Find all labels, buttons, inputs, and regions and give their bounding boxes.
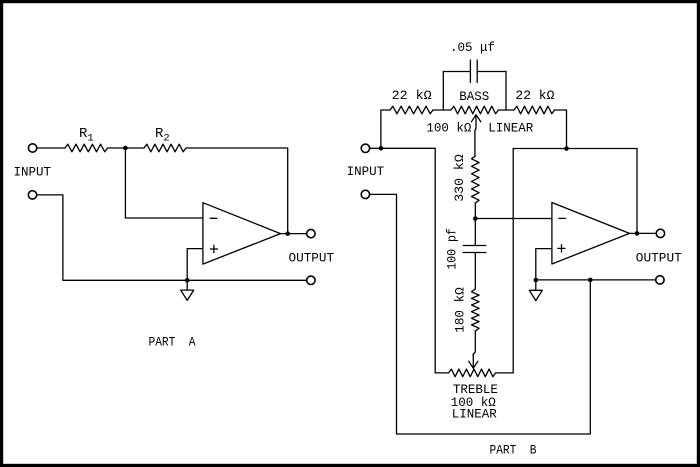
wire bass wiper to 330k — [475, 128, 476, 156]
svg-text:22 kΩ: 22 kΩ — [515, 89, 555, 103]
capacitor C1 .05uf plate right — [476, 60, 478, 83]
svg-text:.05 μf: .05 μf — [450, 41, 495, 55]
wire feedback line (Part B) — [513, 148, 637, 150]
wire feedback top (Part A) — [186, 148, 288, 234]
svg-text:PART B: PART B — [490, 443, 537, 457]
wire 22k right from bass pot — [506, 109, 514, 111]
node: ground junction (Part A) — [185, 278, 190, 283]
wire U2 output — [630, 232, 657, 234]
wire 22k left to bass pot — [433, 109, 443, 111]
svg-text:330 kΩ: 330 kΩ — [453, 154, 467, 202]
svg-text:LINEAR: LINEAR — [488, 121, 534, 135]
wire 22k right down to feedback line — [555, 110, 567, 149]
wire U1 noninverting input to ground bus — [187, 249, 203, 281]
op-amp U1 (Part A) — [203, 203, 281, 264]
output terminal J3 (Part A) — [307, 229, 315, 237]
capacitor C2 100pf plate top — [463, 245, 486, 247]
treble wiper arrow — [469, 354, 478, 368]
node: summing junction — [473, 216, 478, 221]
svg-text:22 kΩ: 22 kΩ — [392, 89, 433, 103]
svg-text:PART A: PART A — [149, 336, 196, 350]
input terminal J2 (Part A) — [28, 191, 36, 199]
wire bass pot left leg up to cap — [442, 72, 444, 111]
wire J5 to network — [370, 147, 381, 149]
node: input junction (Part B) — [379, 146, 384, 151]
resistor 22k right — [514, 106, 555, 114]
output terminal J4 (Part A) — [307, 276, 315, 284]
op-amp U2 (Part B) — [552, 203, 630, 265]
wire J1 to R1 — [37, 147, 65, 149]
svg-text:OUTPUT: OUTPUT — [636, 252, 683, 266]
wire U1 output — [281, 233, 307, 235]
wire cap right — [477, 71, 506, 73]
wire 180k to treble wiper — [473, 331, 475, 356]
node: feedback junction — [564, 146, 569, 151]
svg-text:100 kΩ: 100 kΩ — [426, 121, 472, 135]
U2 plus sign — [558, 247, 565, 249]
ground symbol (Part B) — [529, 280, 542, 301]
wire bass pot right leg up to cap — [505, 72, 507, 111]
U2 minus sign — [559, 217, 566, 219]
wire 330k to node — [474, 203, 476, 219]
ground symbol (Part A) — [181, 280, 194, 300]
svg-text:TREBLE: TREBLE — [453, 383, 498, 397]
wire J2 to ground bus (Part A) — [37, 195, 307, 280]
wire J6 bottom loop — [370, 194, 591, 434]
svg-text:BASS: BASS — [459, 90, 489, 104]
wire C2 to 180k — [474, 253, 476, 290]
wire feedback down to U2 output — [636, 149, 638, 234]
input terminal J6 (Part B) — [361, 190, 369, 198]
input terminal J5 (Part B) — [361, 144, 369, 152]
svg-text:INPUT: INPUT — [347, 165, 385, 179]
svg-text:OUTPUT: OUTPUT — [289, 251, 335, 265]
wire input junction right and down to treble left — [381, 148, 435, 373]
U1 minus sign — [210, 217, 217, 219]
node: R1/R2 junction — [123, 146, 128, 151]
node: U2 output junction — [635, 231, 640, 236]
U1 plus sign — [210, 248, 217, 250]
wire node to U2 inverting input — [475, 218, 552, 220]
svg-text:180 kΩ: 180 kΩ — [453, 287, 467, 333]
node: ground junction (Part B) — [534, 278, 539, 283]
capacitor C1 .05uf plate left — [469, 60, 471, 83]
input terminal J1 (Part A) — [28, 144, 36, 152]
node: U1 output junction — [285, 231, 290, 236]
wire U2 noninverting input to ground — [536, 249, 552, 280]
potentiometer TREBLE 100k element — [435, 369, 513, 377]
resistor 180k — [472, 289, 480, 331]
wire junction to inverting input — [125, 148, 202, 218]
wire node to capacitor C2 — [474, 219, 476, 246]
resistor 330k — [472, 156, 480, 203]
bass wiper arrow — [471, 115, 480, 129]
output terminal J7 (Part B) — [656, 229, 664, 237]
svg-text:LINEAR: LINEAR — [452, 408, 498, 422]
wire cap left — [443, 71, 470, 73]
capacitor C2 100pf plate bottom — [463, 252, 486, 254]
potentiometer BASS 100k element — [443, 106, 506, 114]
resistor R1 — [65, 144, 108, 152]
wire input up to 22k left — [381, 110, 390, 148]
resistor R2 — [144, 144, 186, 152]
wire R1 to R2 — [108, 147, 145, 149]
svg-text:100 pf: 100 pf — [445, 228, 459, 270]
wire ground bus (Part B) — [536, 279, 656, 281]
wire treble right up to feedback node — [512, 149, 514, 373]
resistor 22k left — [390, 106, 433, 114]
output terminal J8 (Part B) — [656, 276, 664, 284]
node: bottom loop junction — [588, 278, 593, 283]
svg-text:INPUT: INPUT — [14, 166, 52, 180]
